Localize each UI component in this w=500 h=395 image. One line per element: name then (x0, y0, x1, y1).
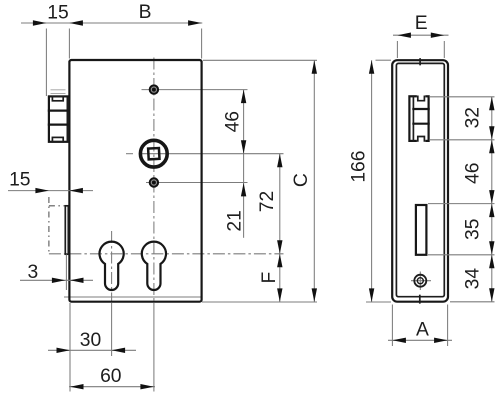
case bottom hidden line (64, 296, 202, 298)
latch slot faint line upper (51, 89, 66, 91)
dim B: extension line case right (201, 29, 203, 59)
arrow down at 253.8 (277, 240, 282, 254)
svg-text:35: 35 (463, 219, 484, 240)
dim C: extension line bottom (202, 301, 317, 303)
arrow down at 301.9 (369, 288, 374, 302)
extension line slot bottom (428, 254, 495, 256)
arrow left at 392.4 (392, 338, 406, 343)
fixing hole lower (149, 177, 159, 187)
svg-text:F: F (259, 272, 280, 284)
arrow up at 96.8 (489, 97, 494, 111)
cylinder hole right (142, 242, 166, 290)
dim F dimension line (279, 254, 281, 302)
arrow up at 203.6 (489, 204, 494, 218)
svg-text:32: 32 (463, 107, 484, 128)
chain dims right: extension line latch top (430, 96, 495, 98)
centerline horizontal lower fixing hole (146, 182, 248, 184)
arrow left at 397.4 (397, 33, 411, 38)
faceplate bottom parting tick (419, 296, 421, 303)
svg-text:46: 46 (223, 111, 244, 132)
screw hole side view crosshair vertical (419, 272, 421, 291)
latch side bottom notch (417, 137, 425, 144)
chain dimension line (491, 97, 493, 302)
arrow up at 253.8 (277, 254, 282, 267)
centerline horizontal hub (139, 153, 284, 155)
dim E: extension line right (443, 41, 445, 58)
square spindle hole (148, 148, 159, 159)
latch bolt top notch (52, 96, 63, 100)
arrow up at 89.6 (241, 90, 246, 104)
svg-text:166: 166 (349, 151, 370, 183)
arrow left at 111.6 (112, 348, 126, 353)
arrow left at 70.0 (70, 278, 84, 283)
latch side top notch (417, 94, 425, 101)
dim 15/B: extension line case left (68, 29, 70, 59)
dim 3 dimension line (20, 279, 93, 281)
arrow down at 301.9 (277, 288, 282, 302)
dim A: extension line left (391, 305, 393, 347)
centerline vertical main axis front view (153, 58, 155, 302)
dim 21 dimension line (243, 154, 245, 238)
dim A dimension line (388, 339, 452, 341)
latch side view face line (412, 96, 414, 141)
arrow right at 444.3 (431, 33, 445, 38)
arrow down at 301.8 (489, 288, 494, 302)
cylinder hole left (100, 242, 124, 290)
latch side view body (409, 96, 428, 141)
arrow right at 46.4 (33, 20, 47, 25)
centerline horizontal cylinder axis (49, 253, 284, 255)
svg-text:15: 15 (47, 2, 68, 23)
phantom strike box left edge (48, 197, 50, 254)
arrow up at 60.3 (312, 60, 317, 74)
arrow right at 201.6 (188, 20, 202, 25)
dim 46 dimension line right of case (243, 90, 245, 154)
latch bolt bevel edge (66, 97, 68, 141)
arrow down at 203.6 (489, 190, 494, 204)
svg-text:72: 72 (257, 191, 278, 212)
centerline vertical left cylinder (111, 231, 113, 301)
follower hub circle (140, 140, 167, 167)
arrow down at 139.8 (489, 126, 494, 140)
fixing hole top (149, 84, 159, 94)
latch bolt divider lower (49, 123, 69, 125)
extension line 30-dim middle (111, 303, 113, 356)
svg-text:3: 3 (28, 262, 39, 283)
arrow down at 153.7 (241, 140, 246, 154)
faceplate top parting tick (419, 59, 421, 65)
dim 166: extension line bottom (366, 301, 391, 303)
extension line latch bottom (430, 139, 495, 141)
phantom strike box top edge (49, 205, 65, 207)
dim 60 dimension line (69, 386, 155, 388)
side view faceplate outer (392, 60, 448, 302)
extension line 60-dim right (153, 303, 155, 392)
svg-text:60: 60 (100, 366, 121, 387)
arrow up at 254.8 (489, 255, 494, 268)
svg-text:E: E (415, 13, 428, 34)
arrow right at 153.9 (140, 384, 154, 389)
screw hole side view crosshair horizontal (411, 280, 431, 282)
lock case front view (69, 60, 201, 302)
latch side divider upper (413, 108, 428, 110)
strike plate extension line (65, 254, 67, 290)
strike plate 3mm (65, 206, 68, 254)
arrow up at 60.2 (369, 60, 374, 73)
latch bolt bottom notch (52, 137, 63, 141)
arrow down at 301.9 (312, 288, 317, 302)
arrow down at 254.8 (489, 241, 494, 255)
screw hole side view inner circle (417, 278, 423, 284)
dim 15 top / B dimension line (21, 22, 202, 24)
svg-text:34: 34 (463, 268, 484, 290)
arrow up at 182.9 (241, 183, 246, 197)
dim 166 dimension line (371, 60, 373, 302)
dim A: extension line right (447, 305, 449, 347)
latch side divider lower (413, 123, 428, 125)
svg-text:15: 15 (9, 170, 30, 191)
extension line faceplate bottom (450, 301, 495, 303)
dim 60: extension line case left lower (69, 303, 71, 392)
latch bolt front view (49, 96, 69, 141)
arrow right at 447.6 (434, 338, 448, 343)
cylinder slot side view (416, 205, 427, 255)
screw hole side view outer circle (414, 275, 426, 287)
latch slot faint line lower (51, 93, 66, 95)
svg-text:46: 46 (463, 163, 484, 184)
arrow right at 70.0 (57, 348, 71, 353)
svg-text:A: A (416, 320, 429, 341)
centerline horizontal top fixing hole (142, 89, 248, 91)
latch bolt divider upper (49, 109, 69, 111)
arrow right at 48.9 (35, 188, 49, 193)
arrow right at 65.4 (52, 278, 66, 283)
svg-text:30: 30 (80, 330, 101, 351)
extension line slot top (428, 203, 495, 205)
dim 166: extension line top (376, 59, 392, 61)
dim 15 left dimension line (8, 190, 93, 192)
svg-text:C: C (291, 173, 312, 187)
centerline horizontal hub dash (126, 153, 133, 155)
arrow left at 69.4 (69, 188, 83, 193)
svg-text:21: 21 (224, 210, 245, 231)
dim 15 top: extension line latch tip (45, 29, 47, 97)
side view faceplate inner (396, 63, 444, 296)
arrow left at 70.0 (70, 384, 84, 389)
dim 72 dimension line (279, 154, 281, 254)
dim E: extension line left (396, 41, 398, 58)
dim E dimension line (393, 34, 449, 36)
dim C dimension line (313, 60, 315, 302)
arrow up at 153.7 (277, 154, 282, 168)
svg-text:B: B (139, 2, 152, 23)
arrow up at 139.8 (489, 140, 494, 154)
arrow left at 69.4 (69, 20, 83, 25)
dim 30 dimension line (48, 349, 136, 351)
dim C: extension line top (203, 59, 317, 61)
